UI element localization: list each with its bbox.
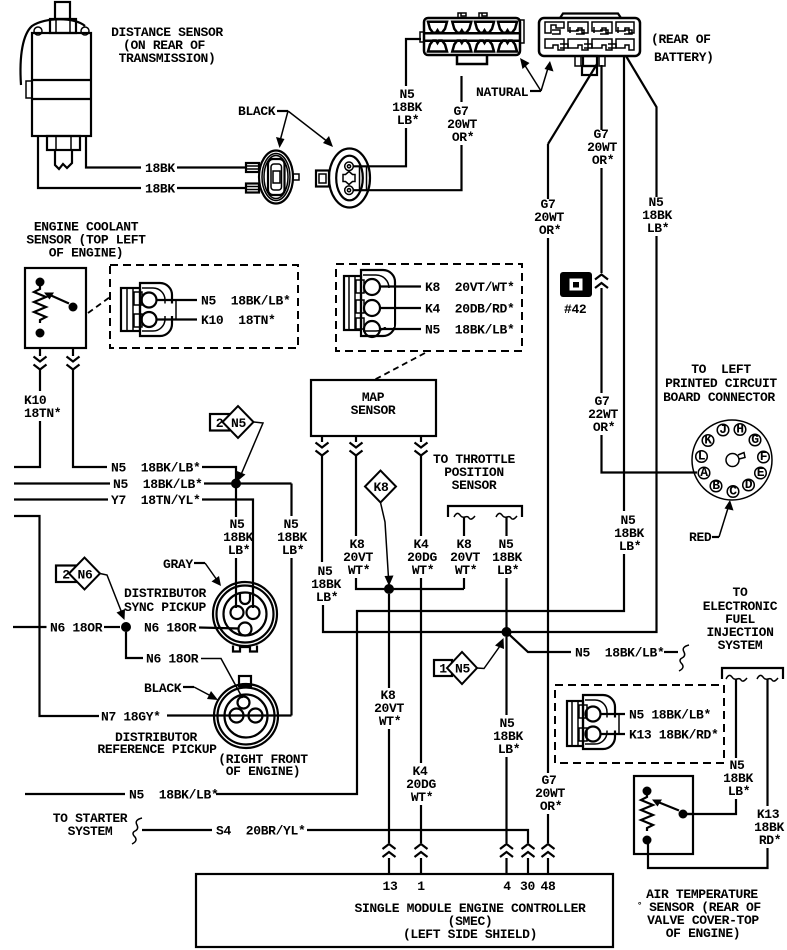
svg-text:RED: RED — [689, 530, 712, 545]
svg-text:BATTERY): BATTERY) — [654, 50, 714, 65]
svg-text:REFERENCE PICKUP: REFERENCE PICKUP — [97, 742, 217, 757]
wire N5 18BK/LB* from coolant sensor to junction J1 — [72, 348, 74, 356]
svg-text:LB*: LB* — [282, 543, 304, 558]
svg-text:(REAR OF: (REAR OF — [651, 32, 711, 47]
wire N5 18BK LB* from C2 pin to black connector C3 left — [354, 128, 407, 166]
wire K10 18TN* from coolant sensor — [39, 348, 41, 356]
svg-text:N6 18OR: N6 18OR — [146, 652, 199, 667]
SMEC pin stubs — [388, 858, 390, 874]
svg-text:LB*: LB* — [647, 221, 669, 236]
svg-text:LB*: LB* — [728, 784, 750, 799]
svg-text:18BK: 18BK — [145, 182, 175, 197]
wire N5 18BK LB* from J1 to reference pickup pin — [290, 484, 292, 517]
wire N7 18GY* to reference pickup — [14, 516, 99, 716]
connector C4 (natural 8-way connector, rear of battery) — [539, 14, 640, 76]
svg-text:1: 1 — [417, 879, 425, 894]
wire N5 18BK/LB* from MAP sensor — [321, 436, 323, 442]
2-way connector symbol — [121, 283, 197, 336]
svg-text:F: F — [760, 449, 768, 464]
wire G7 20WT OR* from C2 pin to black connector C3 bottom tab — [354, 145, 462, 190]
distributor sync pickup (gray connector) — [213, 582, 277, 652]
svg-text:°: ° — [637, 901, 642, 911]
svg-text:K13 18BK/RD*: K13 18BK/RD* — [629, 728, 718, 743]
svg-text:4: 4 — [503, 879, 511, 894]
EFI terminal K13 — [757, 675, 778, 681]
svg-text:RD*: RD* — [759, 833, 781, 848]
svg-text:SYNC PICKUP: SYNC PICKUP — [124, 600, 207, 615]
svg-text:SENSOR: SENSOR — [452, 478, 497, 493]
svg-text:N5 18BK/LB*: N5 18BK/LB* — [425, 323, 514, 338]
single module engine controller (SMEC) — [196, 874, 613, 947]
svg-text:OF ENGINE): OF ENGINE) — [226, 764, 301, 779]
svg-text:TO: TO — [733, 585, 748, 600]
svg-text:S4 20BR/YL*: S4 20BR/YL* — [216, 824, 305, 839]
arrow to connector C1 — [280, 111, 288, 141]
wire 18BK (lower) from distance sensor to black connector C1 — [38, 136, 141, 188]
flag K8 (circuit diamond) — [365, 471, 396, 587]
svg-text:30: 30 — [520, 879, 535, 894]
svg-text:N5 18BK/LB*: N5 18BK/LB* — [629, 708, 711, 723]
svg-text:J: J — [719, 422, 726, 437]
svg-text:N5: N5 — [455, 662, 470, 677]
wire 18BK (upper) from distance sensor to black connector C1 — [86, 136, 141, 168]
arrow to C3 — [524, 64, 541, 91]
svg-text:48: 48 — [541, 879, 556, 894]
connector detail box (coolant sensor 2-way) — [110, 265, 298, 348]
arrow to C4 — [541, 68, 548, 91]
svg-text:K8: K8 — [374, 480, 389, 495]
svg-text:BOARD CONNECTOR: BOARD CONNECTOR — [663, 390, 775, 405]
svg-text:NATURAL: NATURAL — [476, 85, 529, 100]
connector C3 (black 8-way connector) — [420, 13, 524, 64]
EFI terminal N5 — [726, 675, 747, 681]
junction J1 (N5 splice at coolant) — [231, 479, 241, 489]
left printed circuit board connector (12-cavity round) — [692, 420, 772, 500]
svg-text:K10 18TN*: K10 18TN* — [201, 313, 276, 328]
svg-text:N5 18BK/LB*: N5 18BK/LB* — [111, 461, 200, 476]
svg-text:OR*: OR* — [593, 420, 615, 435]
svg-text:LB*: LB* — [497, 563, 519, 578]
TPS terminal N5 — [496, 513, 517, 519]
svg-text:N5 18BK/LB*: N5 18BK/LB* — [129, 788, 218, 803]
svg-text:K4 20DB/RD*: K4 20DB/RD* — [425, 302, 514, 317]
svg-text:Y7 18TN/YL*: Y7 18TN/YL* — [111, 493, 200, 508]
splice #42 — [560, 272, 592, 297]
svg-text:OF ENGINE): OF ENGINE) — [666, 926, 741, 941]
svg-text:WT*: WT* — [412, 563, 434, 578]
svg-text:N5 18BK/LB*: N5 18BK/LB* — [113, 477, 202, 492]
wire N5 18BK/LB* from J4 to EFI system — [507, 632, 572, 652]
arrow to connector C2 — [288, 111, 328, 142]
connector C2 (black 2-way oval, harness side) — [316, 149, 370, 208]
svg-text:#42: #42 — [564, 302, 587, 317]
svg-text:SYSTEM: SYSTEM — [68, 824, 113, 839]
svg-text:OR*: OR* — [540, 799, 562, 814]
engine coolant sensor (thermistor) — [25, 268, 86, 348]
svg-text:N6 18OR: N6 18OR — [144, 621, 197, 636]
svg-text:1: 1 — [439, 662, 447, 677]
connector C1 (black 2-way oval, distance sensor side) — [246, 151, 299, 204]
svg-text:18BK: 18BK — [145, 161, 175, 176]
svg-text:LB*: LB* — [228, 543, 250, 558]
MAP sensor — [311, 380, 436, 436]
EFI bracket — [722, 668, 783, 679]
svg-text:DISTRIBUTOR: DISTRIBUTOR — [124, 586, 207, 601]
flag 2-N5 (splice diamond) — [210, 406, 263, 482]
3-way connector symbol — [344, 270, 421, 337]
svg-text:LB*: LB* — [498, 742, 520, 757]
svg-text:TRANSMISSION): TRANSMISSION) — [119, 51, 216, 66]
flag 1-N5 (splice diamond) — [434, 638, 504, 684]
connector detail box (MAP sensor 3-way) — [336, 264, 522, 351]
svg-text:WT*: WT* — [379, 714, 401, 729]
svg-text:L: L — [698, 449, 706, 464]
wire Y7 18TN/YL* to sync pickup — [14, 498, 108, 500]
dashed leader to coolant sensor — [88, 297, 110, 313]
off-page squiggle (starter) — [132, 818, 142, 844]
svg-text:N6: N6 — [78, 568, 93, 583]
connector detail box (EFI 2-way) — [555, 685, 724, 763]
svg-text:SYSTEM: SYSTEM — [718, 638, 763, 653]
wire S4 20BR/YL* from starter to SMEC pin 30 — [142, 829, 212, 831]
wire break chevrons at SMEC pins — [383, 844, 396, 857]
svg-text:N5: N5 — [231, 416, 246, 431]
junction J3 (K8 splice) — [384, 584, 394, 594]
svg-text:H: H — [736, 422, 743, 437]
distance sensor (cylindrical speed sensor body) — [20, 2, 91, 169]
wire K8 20VT/WT* from MAP sensor — [355, 436, 357, 442]
svg-text:TO LEFT: TO LEFT — [691, 362, 751, 377]
wire G7 20WT OR* from C4 to SMEC pin 48 (upper part) — [548, 64, 597, 144]
svg-text:BLACK: BLACK — [144, 681, 182, 696]
TPS terminal K8 — [454, 513, 475, 519]
junction J4 (N5 splice) — [502, 627, 512, 637]
wire N6 18OR from J2 to reference pickup — [126, 632, 143, 658]
svg-text:N6 18OR: N6 18OR — [50, 621, 103, 636]
wire N5 18BK LB* from C4 down left side (to ground splice line) — [623, 56, 625, 511]
svg-text:WT*: WT* — [348, 563, 370, 578]
svg-text:GRAY: GRAY — [163, 557, 193, 572]
svg-text:E: E — [757, 465, 765, 480]
svg-text:OF ENGINE): OF ENGINE) — [49, 246, 124, 261]
svg-text:SENSOR: SENSOR — [351, 403, 396, 418]
svg-text:PRINTED CIRCUIT: PRINTED CIRCUIT — [665, 376, 777, 391]
wire G7 20WT/22WT OR* from C4 to PCB connector pin A — [600, 65, 602, 130]
wire N5 18BK LB* from J1 down to sync pickup pin — [235, 488, 237, 517]
svg-text:BLACK: BLACK — [238, 104, 276, 119]
svg-text:OR*: OR* — [592, 153, 614, 168]
svg-text:(LEFT SIDE SHIELD): (LEFT SIDE SHIELD) — [403, 927, 537, 942]
wire N6 18OR rail with junction J2 — [13, 626, 47, 628]
flag 2-N6 (splice diamond) — [56, 558, 125, 621]
wire K8 20VT WT* from J3 to SMEC pin 13 — [388, 594, 390, 688]
svg-text:LB*: LB* — [316, 590, 338, 605]
wire N5 18BK LB* from C4 to N5 junction — [626, 56, 657, 197]
svg-text:B: B — [712, 478, 720, 493]
wire K4 20DG/WT* from MAP sensor to SMEC pin 1 — [420, 436, 422, 442]
svg-text:K8 20VT/WT*: K8 20VT/WT* — [425, 280, 514, 295]
off-page squiggle (EFI) — [679, 645, 689, 671]
air temperature sensor (thermistor) — [634, 776, 693, 854]
svg-text:C: C — [729, 484, 737, 499]
svg-text:OR*: OR* — [539, 223, 561, 238]
svg-text:18TN*: 18TN* — [24, 406, 61, 421]
svg-text:N5 18BK/LB*: N5 18BK/LB* — [575, 646, 664, 661]
svg-text:K: K — [704, 433, 712, 448]
svg-text:N5 18BK/LB*: N5 18BK/LB* — [201, 294, 290, 309]
svg-text:A: A — [700, 465, 708, 480]
svg-text:G: G — [751, 432, 759, 447]
svg-text:WT*: WT* — [411, 790, 433, 805]
svg-text:WT*: WT* — [455, 563, 477, 578]
svg-text:N7 18GY*: N7 18GY* — [101, 710, 161, 725]
distributor reference pickup (black connector) — [214, 676, 278, 748]
wire N5 18BK LB* from J4 to SMEC pin 4 — [505, 637, 507, 715]
dashed leader to MAP sensor box — [374, 353, 425, 380]
svg-text:LB*: LB* — [397, 113, 419, 128]
throttle position sensor bracket — [448, 506, 522, 517]
svg-text:13: 13 — [383, 879, 398, 894]
svg-text:OR*: OR* — [452, 130, 474, 145]
wire N5 18BK/LB* horizontal rail (second line) — [14, 482, 110, 484]
svg-text:D: D — [745, 477, 753, 492]
svg-text:LB*: LB* — [619, 539, 641, 554]
wire break chevrons — [595, 275, 608, 289]
2-way connector symbol (EFI) — [567, 695, 625, 749]
